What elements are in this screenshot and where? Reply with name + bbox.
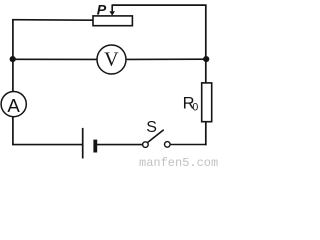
wire bottom-right horizontal (corner to switch) (171, 144, 207, 146)
switch left terminal circle (143, 142, 149, 148)
wire left vertical upper (corner to ammeter) (12, 19, 14, 91)
ammeter A circle (1, 92, 26, 117)
wire right vertical lower (resistor to bottom corner) (205, 122, 207, 145)
resistor R0 body (202, 83, 212, 122)
switch lever (148, 130, 164, 142)
rheostat slider wire (vertical) (111, 4, 113, 12)
wire voltmeter branch right (127, 58, 206, 60)
wire top (slider to top-right corner) (112, 4, 206, 6)
wire switch to battery (97, 144, 142, 146)
battery negative plate (short thick) (93, 140, 97, 153)
svg-text:P: P (97, 3, 107, 19)
wire top-left horizontal (corner to rheostat) (12, 19, 93, 22)
svg-text:S: S (146, 119, 157, 136)
wire voltmeter branch left (13, 58, 97, 60)
switch right terminal circle (165, 142, 171, 148)
rheostat slider arrowhead (109, 11, 115, 15)
svg-text:manfen5.com: manfen5.com (139, 156, 218, 167)
node junction dot right (203, 56, 209, 62)
wire right vertical (junction to resistor) (205, 59, 207, 83)
wire battery to bottom-left corner (12, 144, 82, 146)
node junction dot left (10, 56, 16, 62)
wire left vertical lower (ammeter to bottom corner) (12, 117, 14, 145)
svg-text:A: A (7, 95, 20, 116)
battery positive plate (long) (82, 128, 84, 159)
wire right vertical upper (top corner to junction) (205, 5, 207, 59)
svg-text:V: V (104, 48, 119, 70)
voltmeter V circle (97, 45, 126, 74)
rheostat P body (93, 16, 132, 26)
svg-text:0: 0 (192, 101, 198, 113)
